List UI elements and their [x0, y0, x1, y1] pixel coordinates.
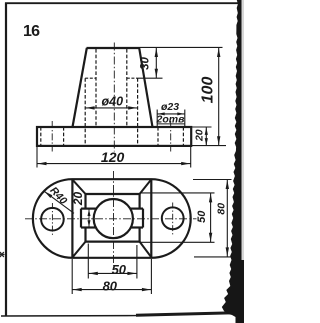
- hidden hole o23 left edge: [95, 49, 97, 127]
- dimension 20 extension: [191, 126, 211, 128]
- right bolt hole hidden edges: [157, 127, 159, 146]
- o23 extension lines: [156, 110, 158, 127]
- dimension o40 line: [85, 107, 137, 109]
- right bolt hole centerline: [170, 121, 172, 152]
- slot 20 dimension arrows: [88, 209, 90, 227]
- frustum corner diagonal top-left: [73, 180, 86, 194]
- dimension 20 line: [205, 127, 207, 146]
- dimension 100 line: [218, 47, 220, 145]
- svg-text:120: 120: [101, 149, 125, 165]
- dimension 50h extension lines: [87, 244, 89, 279]
- dimension 50v line: [210, 193, 212, 242]
- svg-text:80: 80: [216, 203, 228, 215]
- svg-text:ø23: ø23: [161, 101, 179, 113]
- top view square left edge: [71, 179, 73, 257]
- svg-text:R40: R40: [47, 185, 69, 207]
- dimension 120 line: [37, 163, 191, 165]
- svg-text:30: 30: [140, 57, 152, 70]
- top view central circle o40: [94, 199, 133, 238]
- dimension 80h extension lines: [71, 259, 73, 294]
- front view frustum left slant: [73, 48, 87, 127]
- R40 leader line: [44, 191, 74, 213]
- svg-text:ø40: ø40: [102, 95, 124, 109]
- dimension 50v extension lines: [140, 192, 215, 194]
- front view base flange outline: [37, 127, 191, 146]
- hidden counterbore step right: [127, 77, 138, 79]
- extension line counterbore step: [138, 77, 163, 79]
- left slot tab: [80, 209, 82, 228]
- top view central rect right edge: [139, 194, 141, 209]
- hidden counterbore step left: [85, 77, 96, 79]
- book page edge (dark scan strip): [222, 0, 244, 323]
- svg-text:50: 50: [196, 210, 208, 223]
- front view frustum top edge: [87, 47, 140, 49]
- left bolt hole circle: [41, 208, 64, 231]
- page border top: [5, 2, 238, 4]
- front view vertical centerline: [113, 43, 115, 152]
- left hole vertical centerline: [51, 203, 53, 236]
- right hole vertical centerline: [172, 203, 174, 236]
- hidden hole o23 right edge: [126, 49, 128, 127]
- dimension 100 extension bottom: [191, 145, 226, 147]
- left margin mark: [0, 252, 4, 257]
- top view stadium outline: [33, 179, 191, 258]
- right slot tab: [142, 209, 144, 228]
- top view central rect left edge: [84, 194, 86, 209]
- svg-text:20: 20: [71, 192, 85, 207]
- front view frustum right slant: [139, 48, 152, 127]
- frustum corner diagonal bottom-right: [140, 242, 152, 257]
- svg-text:80: 80: [103, 279, 118, 294]
- dimension 120 extension lines: [36, 146, 38, 168]
- hidden counterbore o40 left edge: [84, 78, 86, 145]
- dimension 30 line: [155, 47, 157, 78]
- svg-text:50: 50: [112, 262, 127, 277]
- page border bottom: [1, 315, 136, 317]
- dimension 50h line: [88, 272, 137, 274]
- o23 dimension line: [157, 113, 185, 115]
- left bolt hole hidden edges: [40, 127, 42, 146]
- extension line from top face: [140, 46, 223, 48]
- dimension 80h line: [72, 289, 151, 291]
- hidden counterbore o40 right edge: [137, 78, 139, 145]
- dimension 80v line: [226, 180, 228, 257]
- left bolt hole centerline: [51, 121, 53, 152]
- page border left: [5, 3, 7, 317]
- top view horizontal centerline: [25, 218, 197, 220]
- top view square right edge: [150, 179, 152, 257]
- top view central rect bottom edge: [86, 241, 140, 243]
- frustum corner diagonal bottom-left: [73, 242, 86, 258]
- svg-text:20: 20: [194, 129, 206, 142]
- svg-text:16: 16: [23, 23, 40, 40]
- top view vertical centerline: [113, 171, 115, 266]
- frustum corner diagonal top-right: [140, 180, 152, 194]
- right bolt hole circle: [162, 207, 184, 229]
- svg-text:100: 100: [199, 77, 216, 104]
- top view central rect top edge: [86, 193, 140, 195]
- dimension 80v extension lines: [193, 179, 232, 181]
